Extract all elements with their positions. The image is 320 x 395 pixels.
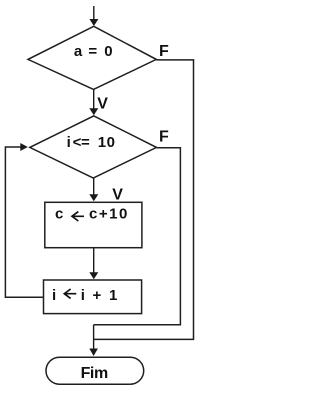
svg-text:c: c: [55, 206, 63, 223]
loop-back wire from P2 to diamond D2: [5, 143, 43, 297]
process box P1 (c ← c+10): [45, 202, 142, 247]
svg-text:i: i: [52, 287, 56, 304]
arrow diamond D2 to process box P1: [89, 178, 98, 201]
svg-text:c+10: c+10: [89, 206, 129, 223]
svg-text:Fim: Fim: [81, 365, 108, 382]
arrow into terminator Fim: [89, 325, 98, 356]
terminator Fim: [46, 357, 144, 384]
svg-text:F: F: [159, 43, 169, 60]
label c ← c+10: [55, 206, 129, 223]
wire F branch from diamond D1: [94, 60, 194, 340]
start arrow: [89, 6, 98, 26]
svg-text:F: F: [159, 128, 169, 145]
svg-text:i + 1: i + 1: [81, 287, 118, 304]
process box P2 (i ← i + 1): [44, 280, 142, 314]
svg-text:V: V: [112, 186, 123, 203]
svg-text:a=0: a=0: [74, 43, 113, 60]
decision diamond D1 (a = 0): [28, 26, 156, 89]
wire F branch from diamond D2: [94, 148, 181, 325]
decision diamond D2 (i <= 10): [30, 116, 157, 178]
label i ← i + 1: [52, 287, 118, 304]
arrow diamond D1 to diamond D2: [89, 90, 98, 116]
arrow process box P1 to process box P2: [89, 248, 98, 280]
svg-text:V: V: [97, 96, 108, 113]
